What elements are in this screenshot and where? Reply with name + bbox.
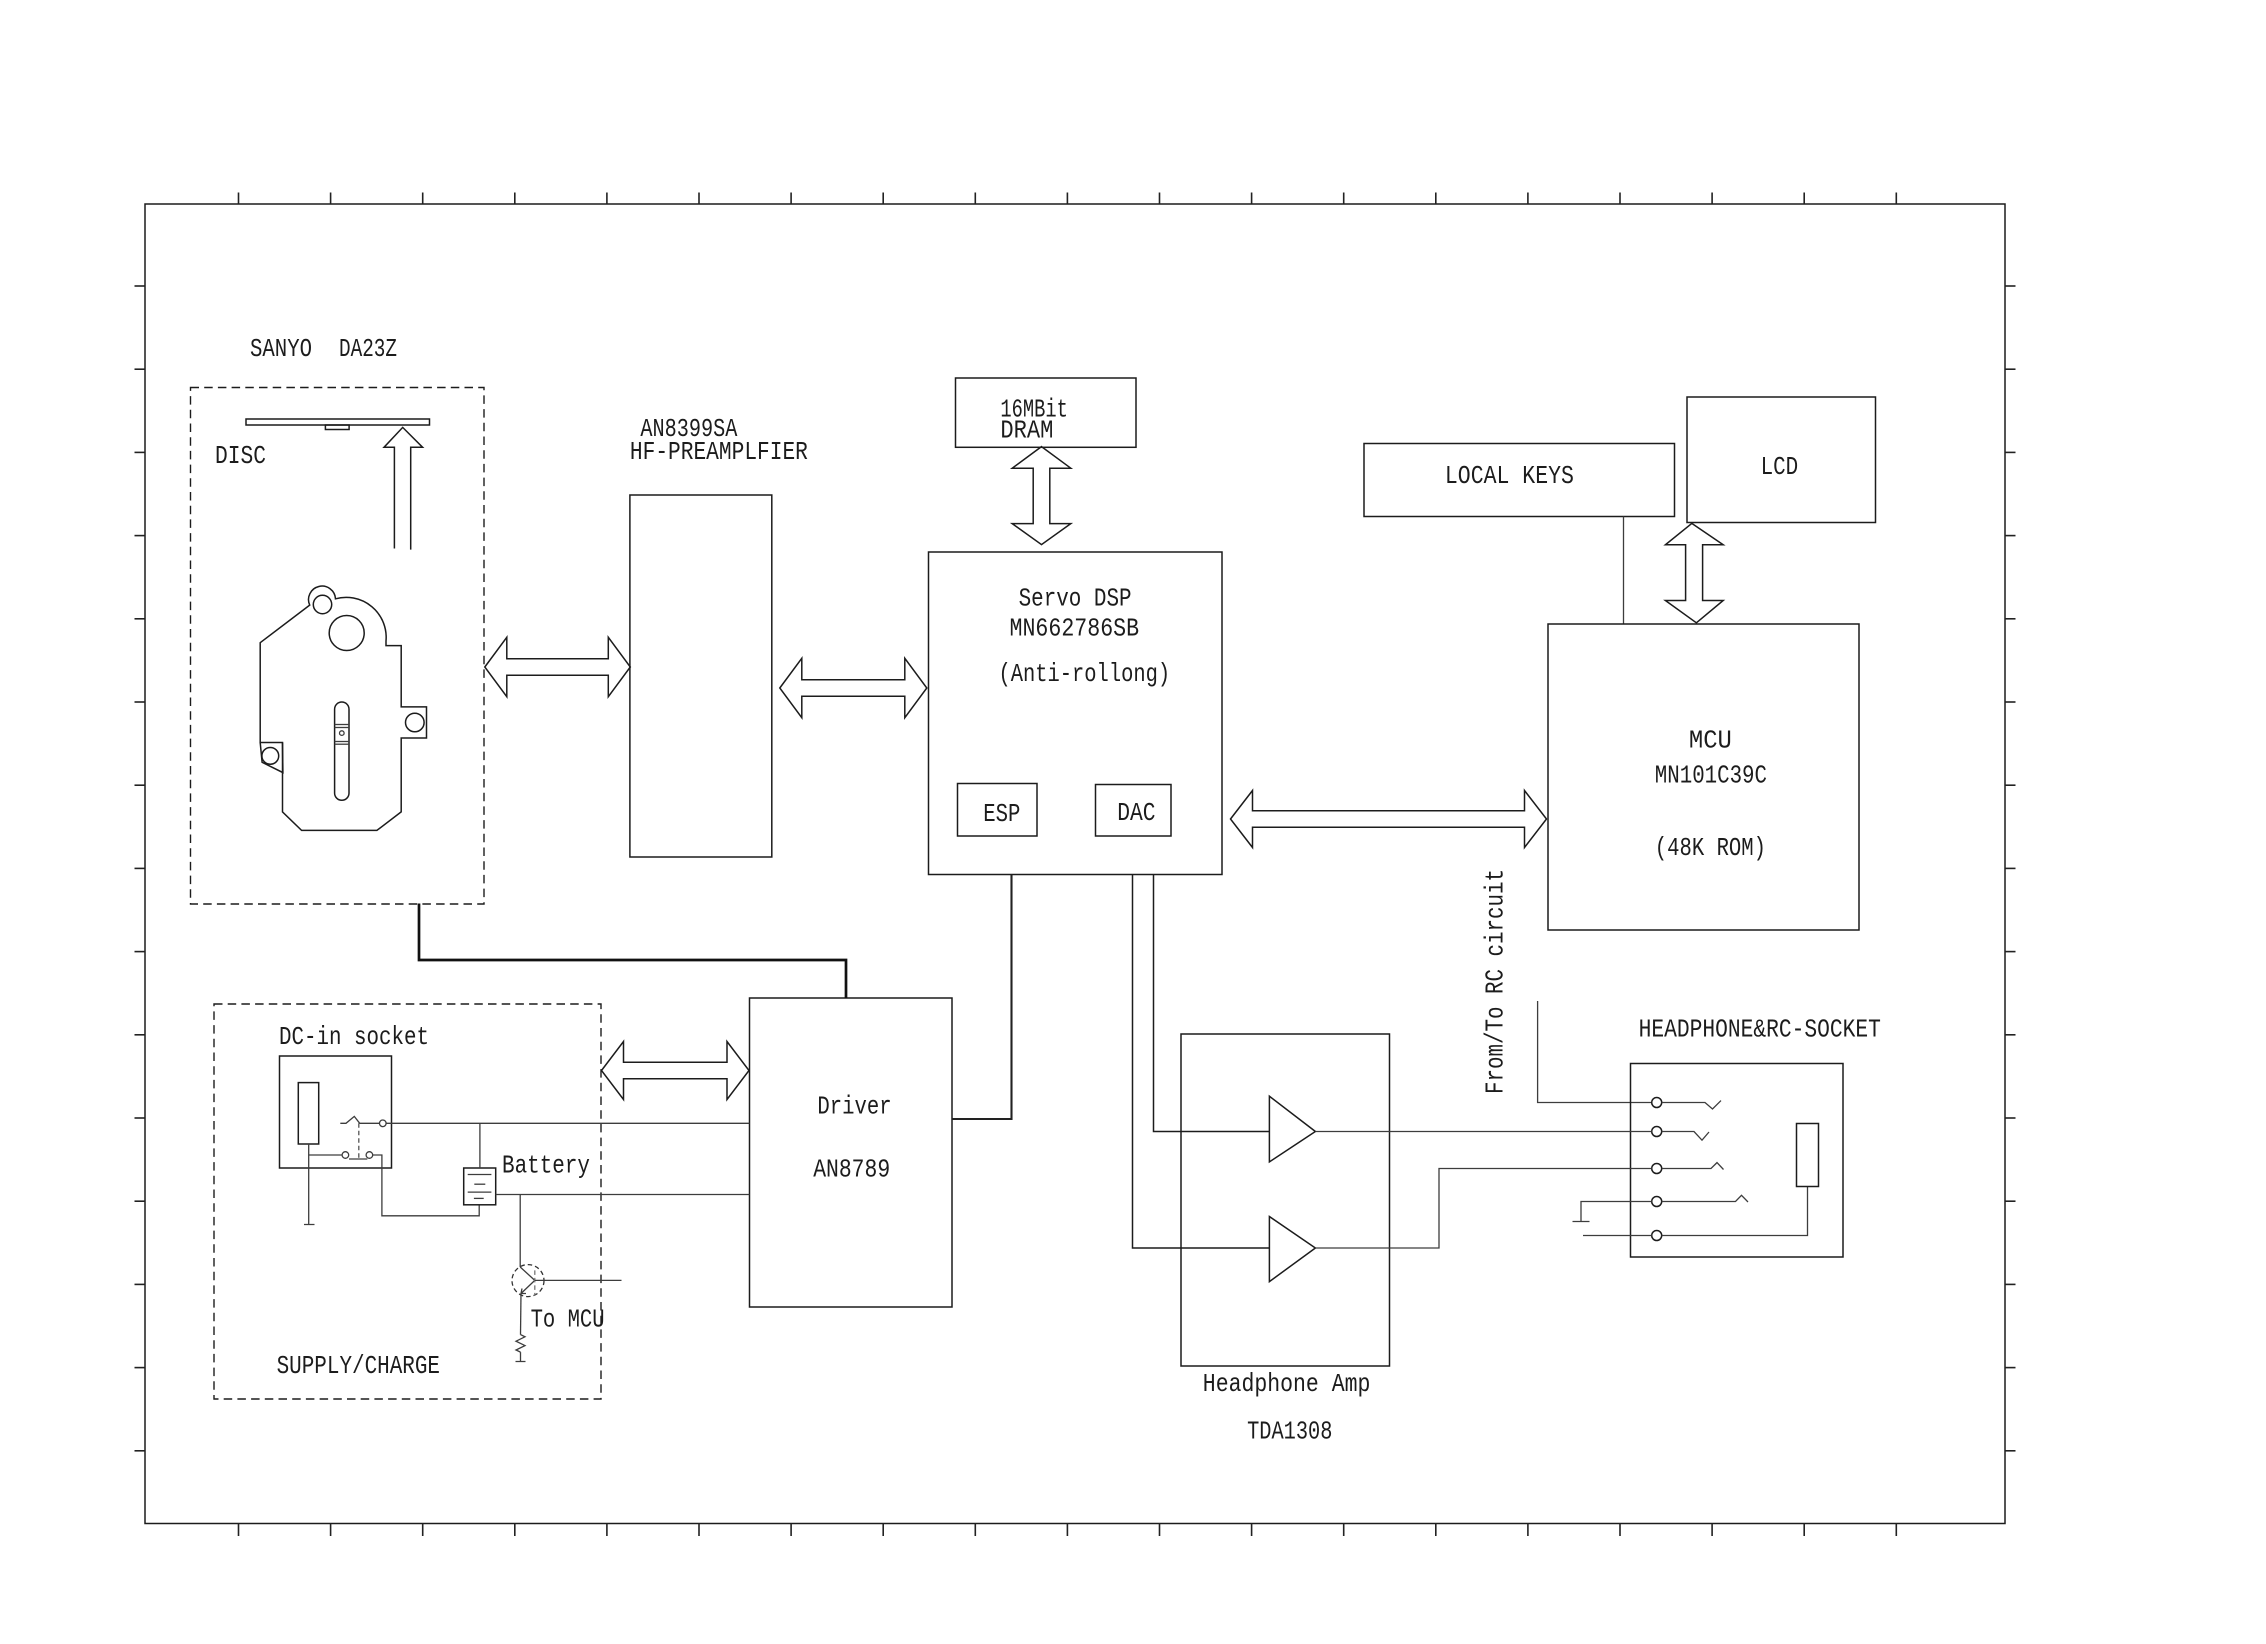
bus arrow: supply to driver	[602, 1042, 750, 1100]
wire: lower contact to battery bottom	[373, 1155, 480, 1216]
wire: DAC to op-amp A	[1154, 875, 1270, 1132]
block: supply/charge dashed enclosure	[214, 1004, 601, 1399]
wire: battery positive stem	[479, 1123, 481, 1168]
socket contact 5	[1652, 1231, 1662, 1241]
switch linkage bar	[349, 1158, 367, 1160]
svg-text:SUPPLY/CHARGE: SUPPLY/CHARGE	[277, 1351, 440, 1381]
socket contact 4	[1652, 1197, 1662, 1207]
socket contact 4 switch arm	[1662, 1195, 1748, 1202]
socket contact 2 switch arm	[1662, 1132, 1709, 1141]
switch contact circle lower-left	[342, 1152, 349, 1159]
svg-text:DC-in socket: DC-in socket	[279, 1022, 429, 1052]
block: ESP	[958, 784, 1038, 837]
block: headphone amp TDA1308	[1181, 1034, 1390, 1366]
transistor Q1 dashed circle	[512, 1265, 544, 1297]
op-amp A (left channel)	[1269, 1096, 1315, 1162]
block: DAC	[1096, 785, 1172, 837]
wire: servo DSP to driver	[952, 875, 1012, 1120]
svg-text:ESP: ESP	[983, 799, 1020, 829]
pickup ear screw circle	[262, 748, 279, 765]
wire: transistor to MCU sense	[535, 1279, 622, 1281]
socket contact 3	[1652, 1164, 1662, 1174]
pickup lens carriage	[335, 725, 349, 745]
DC jack pin	[298, 1083, 318, 1144]
socket contact 1 switch arm	[1662, 1101, 1721, 1109]
svg-text:Driver: Driver	[817, 1092, 891, 1122]
block: LCD	[1687, 397, 1876, 523]
op-amp B (right channel)	[1269, 1217, 1315, 1282]
bus arrow: disc mech to preamp	[485, 637, 631, 696]
block: 16MBit DRAM	[956, 378, 1137, 447]
block: Servo DSP MN662786SB	[929, 552, 1223, 875]
bus arrow: LCD to MCU (vertical)	[1665, 523, 1723, 622]
wire: LOCAL KEYS to MCU	[1623, 517, 1625, 625]
svg-text:DAC: DAC	[1117, 798, 1155, 828]
svg-text:SANYO: SANYO	[250, 334, 312, 364]
ground: resistor return	[516, 1352, 526, 1361]
resistor R1	[516, 1335, 525, 1353]
battery cell	[464, 1168, 496, 1205]
battery plates	[468, 1175, 492, 1199]
svg-text:LOCAL KEYS: LOCAL KEYS	[1445, 461, 1574, 491]
svg-text:TDA1308: TDA1308	[1247, 1417, 1332, 1447]
svg-text:HEADPHONE&RC-SOCKET: HEADPHONE&RC-SOCKET	[1639, 1015, 1881, 1045]
switch contact circle top	[380, 1120, 387, 1127]
plug body	[1797, 1124, 1819, 1187]
block: DC-in socket	[280, 1056, 392, 1168]
block: LOCAL KEYS	[1364, 444, 1675, 517]
socket contact 2	[1652, 1127, 1662, 1137]
svg-text:(48K ROM): (48K ROM)	[1655, 833, 1766, 863]
wire: battery to driver (battery rail)	[496, 1194, 750, 1196]
svg-text:MN662786SB: MN662786SB	[1010, 613, 1140, 643]
svg-text:Battery: Battery	[502, 1151, 590, 1181]
switch lever contact	[340, 1116, 379, 1123]
svg-text:To MCU: To MCU	[531, 1304, 605, 1334]
svg-text:(Anti-rollong): (Anti-rollong)	[999, 659, 1171, 689]
wire: op-amp B output to socket contact 3	[1315, 1169, 1651, 1249]
bus arrow: preamp to servo DSP	[780, 658, 927, 717]
transistor Q1 dashed base line	[534, 1270, 536, 1295]
disc platter	[246, 419, 430, 430]
wire: RC circuit to socket pin 1	[1538, 1001, 1652, 1103]
wire: DAC to op-amp B	[1133, 875, 1270, 1249]
block: MCU MN101C39C	[1548, 624, 1859, 930]
switch contact circle lower-right	[366, 1152, 373, 1159]
socket contact 1	[1652, 1098, 1662, 1108]
wire: transistor emitter to resistor	[520, 1294, 523, 1335]
block: HF preamplifier AN8399SA	[630, 495, 772, 857]
svg-text:HF-PREAMPLFIER: HF-PREAMPLFIER	[630, 437, 808, 467]
block: DISC mechanism dashed enclosure	[191, 388, 485, 905]
transistor Q1 (charge sense)	[520, 1267, 535, 1294]
wire: battery rail to transistor	[519, 1195, 521, 1268]
arrow: disc loading up-arrow	[384, 427, 423, 549]
socket contact 5 arm to plug	[1662, 1187, 1808, 1236]
svg-text:LCD: LCD	[1761, 452, 1799, 482]
svg-text:DA23Z: DA23Z	[339, 334, 397, 364]
wire: disc mech to driver	[419, 904, 846, 999]
ground: socket contact 4	[1573, 1202, 1652, 1222]
switch linkage dashed	[358, 1123, 360, 1158]
block: headphone and remote socket	[1631, 1064, 1844, 1258]
pickup slot	[335, 702, 349, 800]
pickup small top circle	[313, 595, 331, 613]
socket contact 3 switch arm	[1662, 1163, 1724, 1170]
wire: contact 5 stub	[1583, 1235, 1652, 1237]
pickup right tab circle	[406, 713, 425, 732]
pickup spindle circle	[329, 616, 364, 651]
svg-text:DISC: DISC	[215, 441, 266, 471]
ground: DC jack sleeve	[304, 1144, 315, 1225]
bus arrow: servo DSP to MCU	[1231, 791, 1547, 848]
svg-text:MCU: MCU	[1689, 726, 1732, 756]
bus arrow: DRAM to servo DSP (vertical)	[1012, 447, 1071, 545]
wire: jack pin to lower contact	[309, 1154, 342, 1156]
svg-text:From/To RC circuit: From/To RC circuit	[1481, 869, 1511, 1094]
wire: op-amp A output to socket contact 2	[1315, 1131, 1651, 1133]
svg-text:MN101C39C: MN101C39C	[1655, 761, 1767, 791]
svg-text:Servo DSP: Servo DSP	[1019, 584, 1132, 614]
wire: switch to driver (supply rail)	[386, 1122, 749, 1124]
pickup mechanism outline	[260, 586, 426, 830]
block: Driver AN8789	[750, 998, 953, 1307]
svg-text:AN8789: AN8789	[813, 1155, 890, 1185]
svg-text:Headphone Amp: Headphone Amp	[1203, 1369, 1371, 1399]
svg-text:DRAM: DRAM	[1000, 416, 1053, 446]
